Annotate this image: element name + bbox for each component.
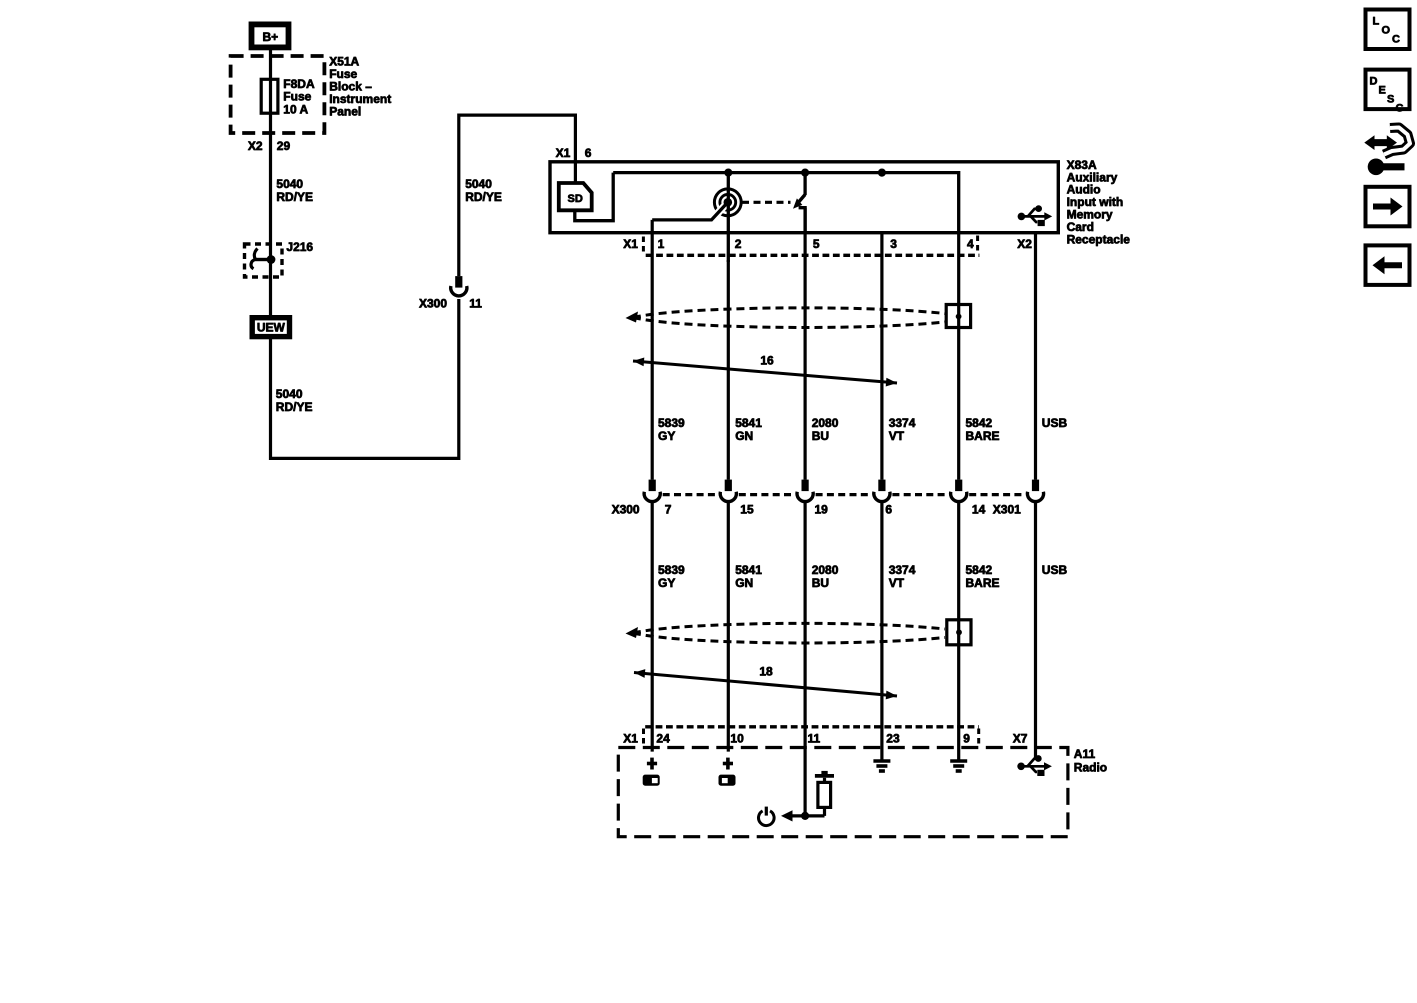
svg-text:6: 6 bbox=[585, 146, 592, 160]
svg-text:S: S bbox=[1387, 94, 1394, 106]
svg-text:23: 23 bbox=[886, 731, 900, 745]
svg-text:BU: BU bbox=[812, 429, 829, 443]
svg-text:VT: VT bbox=[889, 576, 905, 590]
svg-text:11: 11 bbox=[808, 731, 821, 745]
svg-text:GY: GY bbox=[658, 429, 675, 443]
svg-text:X300: X300 bbox=[419, 296, 447, 310]
svg-text:RD/YE: RD/YE bbox=[465, 190, 502, 204]
svg-text:10 A: 10 A bbox=[283, 103, 308, 117]
svg-text:9: 9 bbox=[963, 731, 970, 745]
svg-text:C: C bbox=[1396, 103, 1404, 115]
svg-text:29: 29 bbox=[277, 139, 291, 153]
svg-text:24: 24 bbox=[656, 731, 670, 745]
svg-text:USB: USB bbox=[1042, 563, 1068, 577]
svg-text:18: 18 bbox=[759, 664, 773, 678]
svg-text:D: D bbox=[1370, 76, 1378, 88]
svg-text:4: 4 bbox=[967, 237, 974, 251]
svg-text:15: 15 bbox=[740, 502, 754, 516]
svg-text:GN: GN bbox=[735, 429, 753, 443]
svg-text:X300: X300 bbox=[612, 502, 640, 516]
svg-text:USB: USB bbox=[1042, 416, 1068, 430]
svg-text:Panel: Panel bbox=[329, 105, 361, 119]
svg-text:B+: B+ bbox=[262, 30, 278, 44]
svg-text:X1: X1 bbox=[623, 237, 638, 251]
svg-text:RD/YE: RD/YE bbox=[276, 400, 313, 414]
svg-text:UEW: UEW bbox=[257, 320, 286, 334]
svg-text:X2: X2 bbox=[248, 139, 263, 153]
svg-text:E: E bbox=[1379, 85, 1386, 97]
svg-text:16: 16 bbox=[760, 353, 774, 367]
svg-text:5: 5 bbox=[813, 237, 820, 251]
svg-text:Receptacle: Receptacle bbox=[1067, 233, 1131, 247]
svg-text:J216: J216 bbox=[286, 240, 313, 254]
svg-text:BU: BU bbox=[812, 576, 829, 590]
svg-text:X7: X7 bbox=[1013, 731, 1028, 745]
svg-text:C: C bbox=[1392, 34, 1400, 46]
svg-text:O: O bbox=[1382, 25, 1391, 37]
svg-text:Radio: Radio bbox=[1074, 760, 1107, 774]
svg-text:X1: X1 bbox=[623, 731, 638, 745]
svg-text:BARE: BARE bbox=[966, 429, 1000, 443]
svg-text:7: 7 bbox=[665, 502, 672, 516]
svg-text:SD: SD bbox=[568, 193, 583, 205]
svg-text:3: 3 bbox=[890, 237, 897, 251]
svg-text:L: L bbox=[1373, 16, 1380, 28]
svg-text:2: 2 bbox=[735, 237, 742, 251]
svg-text:11: 11 bbox=[469, 296, 482, 310]
svg-text:GN: GN bbox=[735, 576, 753, 590]
svg-text:10: 10 bbox=[730, 731, 744, 745]
svg-text:X1: X1 bbox=[556, 146, 571, 160]
svg-text:X301: X301 bbox=[993, 502, 1021, 516]
svg-text:X2: X2 bbox=[1017, 237, 1032, 251]
svg-text:A11: A11 bbox=[1074, 747, 1096, 761]
svg-text:14: 14 bbox=[972, 502, 986, 516]
svg-text:6: 6 bbox=[885, 502, 892, 516]
svg-text:19: 19 bbox=[815, 502, 829, 516]
svg-text:VT: VT bbox=[889, 429, 905, 443]
svg-text:BARE: BARE bbox=[966, 576, 1000, 590]
svg-text:GY: GY bbox=[658, 576, 675, 590]
svg-text:1: 1 bbox=[658, 237, 665, 251]
svg-text:F8DA: F8DA bbox=[283, 77, 315, 91]
svg-text:RD/YE: RD/YE bbox=[276, 190, 313, 204]
